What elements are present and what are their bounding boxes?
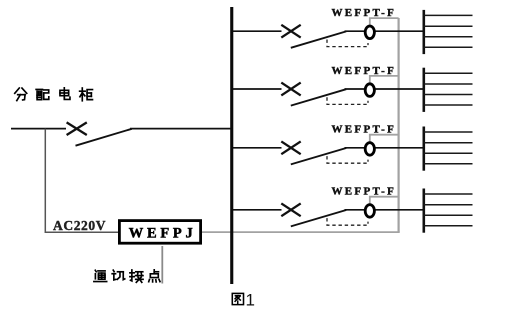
svg-text:AC220V: AC220V <box>53 218 106 233</box>
svg-text:1: 1 <box>246 291 255 310</box>
svg-text:WEFPT-F: WEFPT-F <box>332 186 397 198</box>
svg-text:WEFPT-F: WEFPT-F <box>332 124 397 136</box>
svg-text:WEFPT-F: WEFPT-F <box>332 65 397 77</box>
svg-text:WEFPT-F: WEFPT-F <box>332 7 397 19</box>
svg-text:WEFPJ: WEFPJ <box>129 225 197 241</box>
